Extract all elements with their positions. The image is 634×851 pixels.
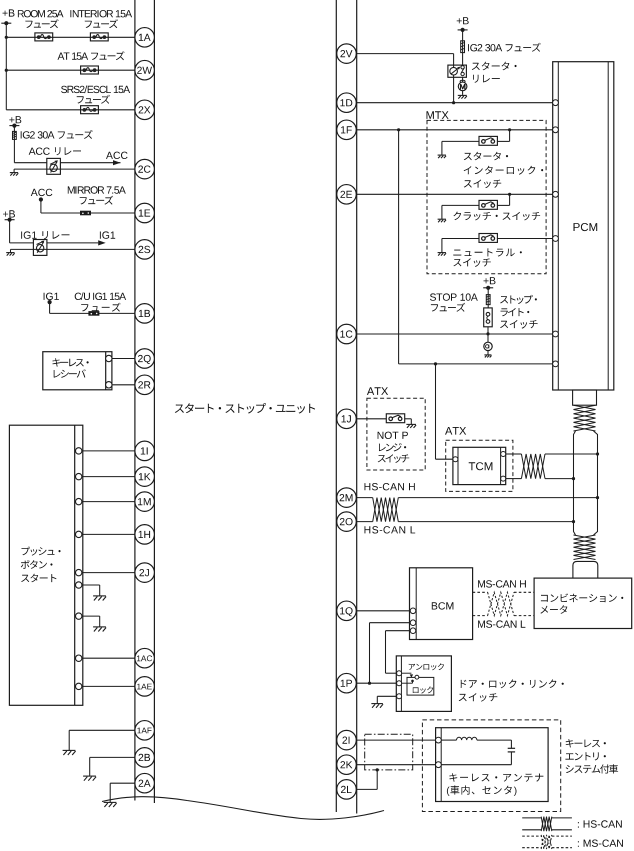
- twisted pair 2M/2O: [373, 498, 399, 522]
- legend MS-CAN twist: [541, 835, 552, 849]
- terminal 1F: [337, 120, 357, 140]
- wire push-button to 1K: [82, 476, 135, 478]
- wire 2A ground: [110, 783, 135, 802]
- legend MS-CAN wires: [522, 836, 572, 848]
- label SRS2/ESCL 15A: [61, 86, 130, 104]
- wire TCM L to bus: [545, 478, 574, 480]
- switch clutch: [479, 200, 497, 209]
- switch starter interlock: [479, 136, 497, 145]
- legend MS-CAN label: [578, 840, 623, 847]
- pin 2R receiver: [106, 382, 112, 388]
- wire 2O line: [357, 521, 574, 523]
- wire interlock right: [497, 130, 509, 142]
- wire TCM L: [506, 478, 522, 480]
- wire clutch right: [497, 194, 509, 205]
- label ACC out: [106, 152, 128, 166]
- fuse MIRROR 7.5A: [80, 211, 91, 216]
- pin PCM 1D: [553, 100, 559, 106]
- MTX dashed box: [427, 120, 546, 273]
- wire 2E line: [357, 193, 553, 195]
- label clutch switch: [453, 212, 540, 221]
- ground ACC relay coil: [10, 169, 18, 175]
- wire stop fuse: [487, 288, 489, 308]
- wire 1F vertical drop: [398, 130, 400, 364]
- pin PCM 1C: [553, 331, 559, 337]
- label starter interlock switch: [464, 152, 544, 188]
- label MS-CAN L: [478, 620, 525, 627]
- wire motor to ground: [462, 91, 464, 95]
- terminal 1AC: [135, 648, 155, 668]
- wire starter fuse drop: [462, 30, 464, 65]
- wire stop switch down: [487, 327, 489, 342]
- terminal 2V: [337, 44, 357, 64]
- label INTERIOR 15A: [70, 10, 132, 28]
- label BCM: [432, 602, 454, 609]
- start-stop unit left bar: [135, 0, 155, 803]
- TCM dashed box: [446, 440, 513, 491]
- pin antenna 2K: [436, 762, 442, 768]
- wire 1A line: [6, 36, 135, 38]
- wire 1P line: [357, 682, 397, 684]
- wire TCM H to bus: [545, 453, 598, 455]
- wire 1AF ground: [69, 730, 135, 750]
- pin antenna 2I: [436, 737, 442, 743]
- terminal 1K: [135, 467, 155, 487]
- ground 2A: [104, 802, 117, 807]
- start-stop unit label: [175, 403, 315, 414]
- terminal 1AE: [135, 677, 155, 697]
- terminal 1Q: [337, 601, 357, 621]
- label stop light switch: [500, 295, 537, 329]
- pin TCM left: [453, 457, 458, 462]
- unit break wave: [102, 797, 384, 820]
- connector motor: [460, 80, 465, 82]
- label C/U IG1 15A: [75, 292, 126, 311]
- legend HS-CAN twist: [541, 817, 552, 832]
- pin lock 1: [397, 671, 402, 676]
- terminal 2L: [337, 780, 357, 800]
- wire 2X line: [6, 109, 135, 111]
- label lock: [413, 686, 433, 693]
- node stop/1C: [486, 332, 489, 335]
- terminal 1A: [135, 28, 155, 48]
- wire MS-CAN H: [473, 591, 534, 593]
- meter bus connector: [573, 561, 598, 578]
- pin PCM lower: [553, 361, 559, 367]
- wire receiver to 2Q: [112, 358, 135, 360]
- +B supply IG1: [3, 210, 15, 221]
- wire +B vertical: [5, 23, 7, 110]
- pin push-button gnd1: [76, 582, 82, 588]
- push button start box: [9, 425, 82, 705]
- antenna coil: [441, 737, 511, 740]
- ground clutch: [438, 219, 446, 222]
- twisted pair PCM: [574, 405, 596, 431]
- label TCM: [469, 462, 493, 470]
- ground stop lamp: [484, 355, 491, 358]
- terminal 2W: [135, 60, 155, 80]
- wire pcm lower line: [399, 363, 553, 365]
- label starter relay: [472, 62, 517, 83]
- lock contact box: [407, 677, 434, 695]
- wire IG1 coil to 2S: [11, 248, 135, 250]
- BCM box: [410, 568, 473, 640]
- terminal 2R: [135, 375, 155, 395]
- keyless entry dashed box: [422, 720, 560, 812]
- wire BCM2 to 1P: [370, 623, 411, 684]
- wire 2L shield: [357, 770, 378, 790]
- terminal 2M: [337, 488, 357, 508]
- ground 1AF: [63, 750, 76, 755]
- switch stop light: [484, 308, 493, 327]
- terminal 1AF: [135, 721, 155, 741]
- label HS-CAN L: [365, 526, 416, 533]
- terminal 2B: [135, 748, 155, 768]
- label IG1 out: [98, 231, 115, 245]
- wire MS-CAN L: [473, 615, 534, 617]
- label unlock: [409, 663, 444, 670]
- stop lamp: [484, 342, 492, 350]
- pin push-button 2J: [76, 569, 82, 575]
- pin push-button 1I: [76, 448, 82, 454]
- +B supply top-left: [1, 9, 14, 25]
- wire IG1 switch feed: [10, 220, 99, 243]
- fuse SRS2/ESCL 15A: [81, 106, 99, 114]
- wire TCM H: [506, 453, 522, 455]
- pin 2Q receiver: [106, 355, 112, 361]
- wire 1D line: [357, 102, 553, 104]
- label HS-CAN H: [365, 483, 415, 490]
- label AT 15A: [58, 51, 125, 60]
- label IG1 relay: [21, 231, 69, 239]
- pin push-button 1H: [76, 531, 82, 537]
- node 1F interlock: [508, 128, 511, 131]
- label ACC source: [31, 189, 53, 202]
- +B supply IG2: [9, 116, 21, 128]
- terminal 2J: [135, 563, 155, 583]
- wire BCM3 to lock switch: [386, 631, 411, 674]
- terminal 1H: [135, 525, 155, 545]
- wire 2M line: [357, 497, 598, 499]
- label ROOM 25A: [18, 10, 64, 28]
- wire push-button to 1AE: [82, 685, 135, 687]
- pin push-button 1M: [76, 498, 82, 504]
- ground interlock: [438, 155, 446, 158]
- node +B/1A: [5, 36, 8, 39]
- wire push-button gnd2: [82, 616, 100, 627]
- node 1P/BCM2: [368, 682, 371, 685]
- legend HS-CAN label: [578, 820, 622, 827]
- wire ACC coil to 2C: [14, 168, 135, 170]
- pin PCM 1F: [553, 127, 559, 133]
- +B supply stop: [483, 277, 495, 290]
- label neutral switch: [453, 248, 522, 267]
- wire antenna 2K inner: [441, 764, 511, 766]
- keyless receiver label: [53, 358, 89, 378]
- pin TCM L: [501, 476, 506, 481]
- wire push-button gnd1: [82, 585, 100, 596]
- label ACC relay: [29, 147, 81, 155]
- terminal 2C: [135, 159, 155, 179]
- wire neutral left: [442, 239, 479, 253]
- node bus TCM-L: [572, 477, 575, 480]
- terminal 1P: [337, 673, 357, 693]
- terminal 2E: [337, 185, 357, 205]
- wire receiver to 2R: [112, 384, 135, 386]
- label NOT P: [378, 432, 410, 463]
- fuse IG2 30A: [13, 131, 17, 139]
- fuse AT 15A: [81, 66, 99, 74]
- terminal 1J: [337, 409, 357, 429]
- label STOP 10A: [430, 293, 478, 311]
- label MTX: [427, 111, 449, 119]
- relay ACC: [47, 158, 61, 174]
- ground starter motor: [458, 95, 467, 98]
- wire 2K line: [357, 764, 436, 766]
- node bus 2M: [596, 496, 599, 499]
- switch NOT P: [386, 414, 404, 423]
- terminal 2Q: [135, 349, 155, 369]
- antenna box: [436, 728, 548, 802]
- wire lamp ground: [487, 351, 489, 355]
- wire 2I line: [357, 739, 436, 741]
- terminal 1B: [135, 304, 155, 324]
- ground IG1 relay coil: [6, 249, 14, 255]
- wire relay to motor: [462, 77, 464, 82]
- wire push-button to 1AC: [82, 657, 135, 659]
- fuse C/U IG1 15A: [88, 311, 99, 316]
- label door lock link switch: [459, 679, 564, 701]
- node 2E clutch: [508, 193, 511, 196]
- ground push-button 2: [93, 627, 106, 632]
- wire ACC to 1E: [41, 200, 135, 214]
- TCM box: [453, 447, 506, 484]
- door lock switch box: [396, 656, 451, 712]
- wire 1Q line: [357, 610, 411, 612]
- terminal 1E: [135, 203, 155, 223]
- node 2L shield: [376, 768, 379, 771]
- terminal 1I: [135, 441, 155, 461]
- label MIRROR 7.5A: [68, 186, 126, 204]
- wire 1J line: [357, 418, 387, 420]
- pin BCM 3: [410, 628, 416, 634]
- terminal 1M: [135, 492, 155, 512]
- twisted pair MS-CAN: [488, 592, 514, 615]
- switch lock arm: [402, 673, 419, 683]
- fuse STOP 10A: [486, 295, 490, 305]
- legend HS-CAN wires: [522, 818, 572, 830]
- wire push-button to 1M: [82, 501, 135, 503]
- terminal 2S: [135, 240, 155, 260]
- push button start label: [21, 547, 61, 583]
- pin BCM 2: [410, 620, 416, 626]
- label keyless antenna: [447, 773, 544, 796]
- wire 1C line: [357, 333, 553, 335]
- wire neutral right: [497, 238, 552, 240]
- motor M starter: [458, 82, 467, 91]
- wire ACC switch feed: [14, 162, 120, 164]
- wire clutch left: [442, 205, 479, 219]
- node TCM drop: [434, 362, 437, 365]
- wire TCM vertical: [436, 364, 453, 459]
- terminal 2A: [135, 773, 155, 793]
- switch neutral: [479, 234, 497, 243]
- pin push-button gnd2: [76, 613, 82, 619]
- terminal 2X: [135, 100, 155, 120]
- relay starter coil: [450, 67, 461, 75]
- label ATX notp: [367, 387, 388, 395]
- pin push-button 1AE: [76, 683, 82, 689]
- wire 1F line: [357, 129, 553, 131]
- pin PCM clutch: [553, 191, 559, 197]
- ground 2B: [83, 776, 96, 781]
- CAN bus bar: [574, 431, 598, 535]
- wire 2B ground: [90, 757, 135, 776]
- pin TCM H: [501, 452, 506, 457]
- terminal 2I: [337, 730, 357, 750]
- fuse INTERIOR 15A: [90, 33, 108, 41]
- pin PCM neutral: [553, 236, 559, 242]
- PCM bus connector: [573, 390, 597, 405]
- twisted pair TCM: [521, 454, 545, 479]
- wire push-button to 1I: [82, 450, 135, 452]
- start-stop unit right bar: [336, 0, 356, 814]
- pin push-button 1K: [76, 473, 82, 479]
- ground neutral: [438, 253, 446, 256]
- PCM box: [553, 62, 614, 390]
- ATX notp dashed box: [367, 398, 425, 470]
- wire 2V line: [357, 54, 454, 103]
- wire 2W line: [6, 69, 135, 71]
- ground lock switch: [371, 704, 383, 708]
- relay starter box: [448, 65, 467, 77]
- antenna capacitor: [508, 740, 515, 765]
- +B supply starter: [457, 17, 469, 32]
- wire push-button to 2J: [82, 572, 135, 574]
- node +B/2W: [5, 69, 8, 72]
- terminal 1D: [337, 93, 357, 113]
- fuse ROOM 25A: [35, 33, 53, 41]
- wire IG2 fuse drop: [13, 126, 15, 163]
- wire interlock left: [442, 141, 479, 155]
- label IG1 source: [44, 293, 59, 305]
- pin lock 2: [397, 681, 402, 686]
- combination meter box: [534, 578, 632, 628]
- wire push-button to 1H: [82, 533, 135, 535]
- keyless receiver box: [43, 352, 112, 390]
- terminal 2O: [337, 512, 357, 532]
- terminal 1C: [337, 324, 357, 344]
- label PCM: [574, 223, 598, 231]
- node bus TCM-H: [596, 452, 599, 455]
- label ATX tcm: [445, 427, 466, 435]
- wire IG1 to 1B: [50, 302, 135, 313]
- wire lock ground: [377, 696, 396, 703]
- wire notp right: [405, 419, 412, 424]
- relay starter switch: [461, 66, 464, 76]
- label keyless entry system: [565, 739, 618, 773]
- ground NOT P: [406, 424, 416, 427]
- label IG2 30A: [21, 130, 93, 139]
- shield box 2I/2K: [365, 734, 413, 770]
- node 1F drop: [397, 128, 400, 131]
- label combination meter: [540, 594, 623, 614]
- pin push-button 1AC: [76, 655, 82, 661]
- terminal 2K: [337, 755, 357, 775]
- node 2V/1D: [452, 101, 455, 104]
- pin BCM 1: [410, 608, 416, 614]
- ground push-button 1: [93, 596, 106, 601]
- label MS-CAN H: [478, 580, 526, 587]
- label IG2 30A starter: [468, 43, 541, 52]
- twisted pair bus lower: [574, 535, 596, 560]
- pin lock 3: [397, 694, 402, 699]
- node bus 2O: [572, 520, 575, 523]
- relay IG1: [33, 240, 47, 256]
- fuse IG2 30A starter: [461, 41, 465, 53]
